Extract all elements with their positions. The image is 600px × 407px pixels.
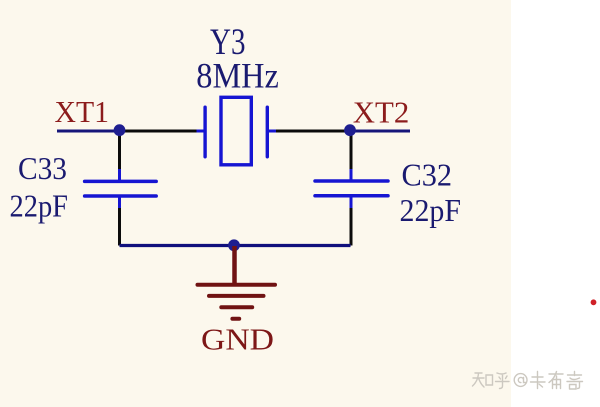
crystal right lead bbox=[267, 130, 276, 133]
wire C32 down to rail bbox=[350, 207, 353, 246]
junction node XT2 bbox=[344, 124, 356, 136]
char 奇 bbox=[567, 372, 583, 390]
ground bar 3 bbox=[221, 305, 252, 309]
svg-text:22pF: 22pF bbox=[400, 192, 462, 228]
ground bar 4 bbox=[232, 317, 239, 321]
capacitor C33 symbol bbox=[85, 169, 157, 208]
crystal Y1 symbol bbox=[197, 97, 277, 165]
wire ground rail bbox=[120, 244, 351, 247]
C33 bottom plate bbox=[85, 194, 157, 198]
svg-text:XT2: XT2 bbox=[353, 95, 410, 130]
junction node GND rail bbox=[228, 239, 240, 251]
C32 top lead bbox=[350, 169, 353, 181]
svg-text:C32: C32 bbox=[402, 157, 453, 193]
svg-text:XT1: XT1 bbox=[55, 94, 110, 129]
C32 top plate bbox=[315, 179, 388, 183]
ground bar 1 bbox=[198, 283, 276, 287]
svg-text:22pF: 22pF bbox=[10, 188, 69, 224]
char 乎 bbox=[496, 373, 510, 389]
ground stem bbox=[232, 246, 237, 285]
C33 top lead bbox=[118, 169, 121, 181]
C32 bottom plate bbox=[315, 194, 388, 198]
wire XT1 to crystal bbox=[119, 130, 197, 133]
wire XT2 down to C32 bbox=[350, 131, 353, 170]
junction node XT1 bbox=[114, 124, 126, 136]
C33 bottom lead bbox=[118, 196, 121, 208]
wire port XT1 stub bbox=[57, 130, 119, 133]
capacitor C32 symbol bbox=[315, 169, 388, 208]
red dot marker bbox=[591, 299, 597, 305]
svg-text:C33: C33 bbox=[18, 150, 67, 186]
ground bar 2 bbox=[209, 294, 264, 298]
char 布 bbox=[549, 372, 563, 389]
wire port XT2 stub bbox=[351, 130, 411, 133]
watermark 知乎 @卡布奇 bbox=[473, 372, 583, 390]
crystal right plate bbox=[266, 107, 269, 157]
wire C33 down to rail bbox=[118, 207, 121, 246]
svg-text:8MHz: 8MHz bbox=[196, 56, 278, 96]
crystal left lead bbox=[197, 130, 206, 133]
ground symbol bbox=[198, 246, 276, 319]
wire crystal to XT2 bbox=[276, 130, 351, 133]
wire XT1 down to C33 bbox=[118, 131, 121, 170]
char 卡 bbox=[531, 372, 546, 389]
background white right strip bbox=[511, 0, 600, 407]
char @ bbox=[514, 374, 527, 387]
C33 top plate bbox=[85, 180, 157, 184]
crystal body rect bbox=[221, 97, 251, 165]
C32 bottom lead bbox=[350, 196, 353, 208]
crystal left plate bbox=[203, 107, 206, 157]
char 知 bbox=[473, 373, 493, 387]
svg-text:GND: GND bbox=[201, 322, 274, 357]
